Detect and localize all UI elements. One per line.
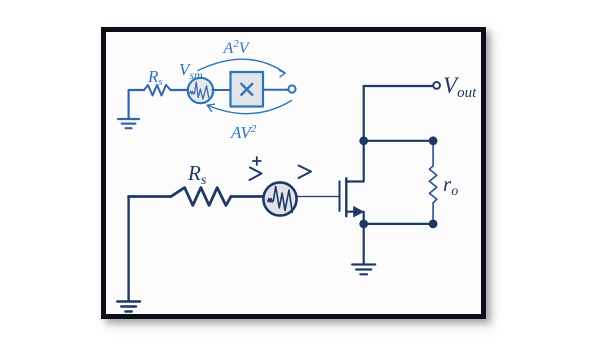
top wire to Vout: [364, 85, 432, 87]
chevron > (right): [299, 166, 312, 179]
noise squiggle inside Vsm: [190, 82, 209, 99]
svg-text:A2V: A2V: [223, 38, 251, 57]
resistor Rs (sub-circuit): [144, 85, 171, 96]
wire ground to resistor Rs (main): [129, 195, 171, 198]
wire ground to resistor Rs (sub): [129, 89, 144, 91]
Vout terminal (open circle): [433, 82, 440, 89]
slide frame: [101, 27, 486, 319]
noise source (main circle): [263, 182, 296, 215]
wire Vsm to multiplier box: [212, 89, 230, 91]
multiplier box U1: [231, 72, 264, 107]
node D horizontal wire: [364, 140, 433, 142]
output terminal (open circle, sub-circuit): [288, 85, 295, 92]
svg-text:Vsm: Vsm: [179, 60, 203, 82]
node S horizontal wire: [364, 223, 433, 225]
feedback arrow AV2 (bottom): [208, 101, 292, 114]
junction dot source-left: [359, 220, 368, 229]
MOSFET drain lead: [346, 141, 363, 182]
ground (main, right): [352, 265, 375, 275]
feedback arrow A2V (top): [198, 59, 285, 72]
noise squiggle inside main source: [268, 187, 293, 213]
chevron > (left): [250, 168, 262, 181]
wire resistor to noise source: [231, 195, 264, 198]
MOSFET source arrow: [353, 206, 364, 218]
svg-text:ro: ro: [443, 172, 458, 199]
source to bottom node wire: [363, 212, 365, 224]
MOSFET M1 gate bar: [339, 181, 341, 211]
junction dot drain-right: [429, 136, 438, 145]
junction dot source-right: [429, 220, 438, 229]
wire resistor to Vsm source: [171, 89, 188, 91]
wire box to output terminal: [263, 89, 288, 91]
wire source node to ground: [363, 224, 365, 264]
multiplier x symbol: [241, 84, 252, 95]
svg-text:Vout: Vout: [443, 73, 477, 101]
ground (sub-circuit): [118, 90, 139, 128]
svg-text:AV2: AV2: [230, 123, 257, 142]
MOSFET M1 channel bar: [345, 178, 347, 216]
svg-text:Rs: Rs: [147, 67, 163, 88]
MOSFET source lead: [346, 211, 355, 213]
plus sign: [253, 157, 261, 165]
junction dot drain-left: [359, 136, 368, 145]
drain node to Vout vertical wire: [363, 86, 365, 141]
thin wire source to gate: [297, 196, 339, 198]
resistor ro: [429, 141, 436, 224]
ground (main, left): [117, 197, 140, 312]
noise source Vsm (circle): [188, 78, 213, 103]
resistor Rs (main): [171, 188, 231, 206]
svg-text:Rs: Rs: [187, 161, 207, 188]
